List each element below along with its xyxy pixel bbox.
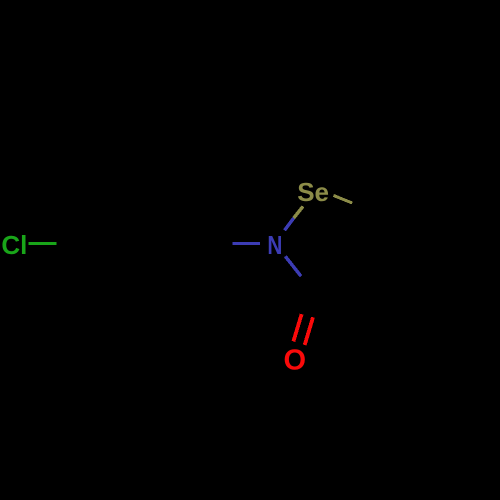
svg-text:N: N bbox=[267, 230, 282, 260]
svg-text:Cl: Cl bbox=[1, 230, 27, 260]
svg-text:O: O bbox=[284, 345, 307, 377]
svg-text:Se: Se bbox=[297, 177, 329, 207]
